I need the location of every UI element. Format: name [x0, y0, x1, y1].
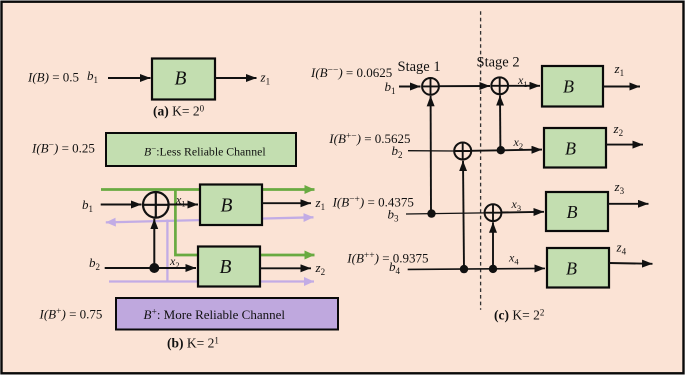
node b1 (a): [87, 68, 98, 85]
wire b2 to B2 (b), node x2: [105, 254, 196, 270]
wire W+ purple vertical: [166, 220, 168, 282]
svg-text:I(B−) = 0.25: I(B−) = 0.25: [31, 141, 95, 156]
svg-text:B: B: [221, 196, 233, 217]
wire xor11 to xor21: [439, 85, 490, 87]
wire B2 to z2 (c): [606, 144, 643, 146]
label I(B-)=0.25: [31, 141, 95, 156]
node b2 (b): [89, 255, 100, 272]
label I(B-+)=0.4375: [332, 195, 414, 210]
wire junction x2 up to xor21: [499, 95, 501, 150]
wire B4 to z4 (c): [609, 262, 653, 265]
node z2 (b): [315, 260, 326, 277]
wire W+ purple bottom: [109, 280, 314, 282]
label I(B++)=0.9375: [346, 251, 428, 266]
label Stage 1: [398, 59, 441, 75]
node z1 (a): [260, 70, 271, 87]
wire junction b3 up to xor11: [430, 96, 432, 214]
label I(B+-)=0.5625: [328, 131, 410, 146]
block B2 (b): [198, 247, 260, 287]
svg-text:B: B: [567, 202, 578, 222]
node b1 (c): [385, 79, 396, 96]
node z2 (c): [613, 121, 624, 138]
junction dot on b3: [427, 209, 435, 217]
junction dot b4 stage1: [460, 265, 468, 273]
xor gate stage1 row2: [454, 143, 471, 160]
node z1 (c): [614, 61, 625, 78]
box B- less reliable channel: [106, 133, 296, 166]
wire b4 to B4 (c), node x4: [408, 251, 545, 270]
wire b3 to xor22: [406, 213, 485, 214]
node z3 (c): [614, 179, 625, 196]
node b3 (c): [388, 207, 400, 224]
svg-text:(c) K= 22: (c) K= 22: [494, 307, 544, 322]
node z1 (b): [315, 195, 326, 212]
node b1 (b): [82, 197, 93, 214]
wire B1 to z1 (b): [262, 202, 311, 204]
wire b2 to xor12: [408, 150, 454, 152]
svg-text:(b) K= 21: (b) K= 21: [167, 335, 219, 350]
svg-text:Stage 1: Stage 1: [398, 59, 441, 75]
svg-text:B: B: [563, 77, 574, 97]
wire W- green top: [101, 188, 315, 191]
box B+ more reliable channel: [116, 298, 338, 330]
node b2 (c): [392, 143, 403, 160]
wire xor down to junction (b): [153, 219, 155, 268]
svg-text:(a) K= 20: (a) K= 20: [153, 103, 205, 118]
wire W- green branch to B2: [175, 189, 314, 256]
wire xor to B1 (b), node x1: [168, 193, 198, 209]
svg-text:I(B) = 0.5: I(B) = 0.5: [27, 70, 79, 85]
wire xor22 to B3 (c), node x3: [501, 197, 544, 213]
wire junction b4 up to xor22: [492, 222, 494, 269]
svg-text:I(B++) = 0.9375: I(B++) = 0.9375: [346, 251, 428, 266]
xor gate stage1 row1: [422, 78, 439, 95]
block B row4 (c): [547, 248, 609, 288]
xor gate (b): [143, 192, 169, 218]
block B row3 (c): [546, 192, 608, 231]
wire b1 to B (a): [108, 77, 151, 79]
svg-text:B: B: [566, 259, 577, 279]
junction dot on x2: [497, 146, 505, 154]
block B (a): [152, 59, 215, 100]
caption (a): [153, 103, 205, 118]
stage separator dashed line: [480, 11, 482, 310]
xor gate stage2 row1: [491, 77, 508, 94]
svg-text:I(B−−) = 0.0625: I(B−−) = 0.0625: [310, 65, 392, 80]
svg-text:B−:Less Reliable Channel: B−:Less Reliable Channel: [144, 144, 266, 159]
caption (c): [494, 307, 544, 322]
wire b1 to xor11: [399, 86, 421, 88]
label I(B--)=0.0625: [310, 65, 392, 80]
wire W+ purple top double arrow: [106, 217, 314, 222]
node b4 (c): [389, 259, 401, 276]
junction dot b4 stage2: [489, 265, 497, 273]
caption (b): [167, 335, 219, 350]
node z4 (c): [616, 240, 627, 257]
block B row1 (c): [542, 66, 603, 107]
svg-text:B: B: [565, 139, 576, 159]
junction dot on b2 (b): [149, 263, 159, 273]
wire xor21 to B1 (c), node x1: [508, 73, 540, 89]
label I(B+)=0.75: [39, 307, 103, 322]
block B1 (b): [200, 185, 262, 226]
wire junction b4 up to xor12: [463, 161, 464, 269]
svg-text:B: B: [175, 69, 187, 90]
svg-text:I(B+−) = 0.5625: I(B+−) = 0.5625: [328, 131, 410, 146]
svg-text:Stage 2: Stage 2: [477, 55, 520, 71]
wire B to z1 (a): [215, 77, 257, 79]
wire B1 to z1 (c): [603, 86, 640, 88]
wire xor12 to B2 (c), node x2: [471, 135, 542, 151]
svg-text:B+: More Reliable Channel: B+: More Reliable Channel: [144, 307, 286, 322]
wire B2 to z2 (b): [260, 267, 311, 269]
svg-text:B: B: [220, 257, 232, 278]
block B row2 (c): [544, 128, 606, 168]
wire b1 to xor (b): [101, 204, 142, 206]
xor gate stage2 row3: [485, 204, 502, 221]
svg-text:I(B−+) = 0.4375: I(B−+) = 0.4375: [332, 195, 414, 210]
label Stage 2: [477, 55, 520, 71]
svg-text:I(B+) = 0.75: I(B+) = 0.75: [39, 307, 103, 322]
wire B3 to z3 (c): [608, 203, 649, 205]
label I(B)=0.5: [27, 70, 79, 85]
